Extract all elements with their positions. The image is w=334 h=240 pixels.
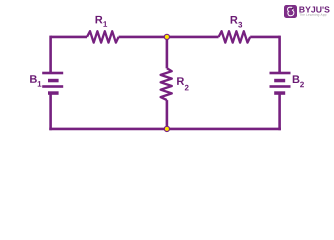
- wire left lower: [49, 93, 52, 131]
- wire right lower: [278, 93, 281, 131]
- label R1: [96, 16, 103, 24]
- BYJU'S logo tagline: [299, 13, 326, 16]
- resistor R1: [87, 31, 119, 42]
- battery B1 plate short bottom: [48, 91, 59, 95]
- wire top-left segment: [51, 36, 87, 39]
- wire top-middle segment: [119, 36, 219, 39]
- battery B1 plate long top: [42, 72, 63, 75]
- node bottom junction: [164, 126, 169, 131]
- BYJU'S logo wordmark: [299, 6, 329, 12]
- wire middle lower: [166, 100, 169, 129]
- node top junction: [164, 34, 169, 39]
- resistor R2: [161, 68, 172, 100]
- battery B2 plate long top: [270, 72, 291, 75]
- battery B2 plate short upper: [274, 79, 285, 83]
- label B1: [30, 75, 37, 83]
- BYJU'S logo icon: [284, 5, 297, 18]
- label R2: [177, 77, 184, 85]
- battery B1 plate short upper: [48, 79, 59, 83]
- battery B2 plate long lower: [270, 85, 291, 88]
- label B2: [293, 75, 300, 83]
- wire bottom: [49, 128, 281, 131]
- wire top-right segment: [250, 36, 279, 39]
- wire left upper: [49, 36, 52, 73]
- label R3: [231, 16, 238, 24]
- wire right upper: [278, 36, 281, 73]
- battery B1 plate long lower: [42, 85, 63, 88]
- wire middle upper: [166, 36, 169, 69]
- battery B2 plate short bottom: [274, 91, 285, 95]
- resistor R3: [219, 31, 251, 42]
